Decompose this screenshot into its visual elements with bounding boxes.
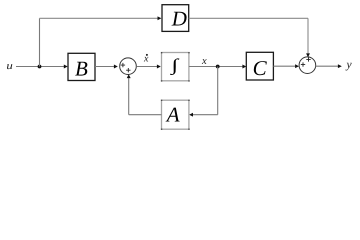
node x label <box>201 56 207 67</box>
summing junction S2 <box>299 57 316 74</box>
svg-text:x: x <box>201 56 207 67</box>
block D <box>162 5 189 32</box>
node y (output label) <box>346 59 353 71</box>
node u (input label) <box>6 61 12 72</box>
wire down into output sum <box>306 18 310 57</box>
wire A left to S1 corner <box>129 114 162 116</box>
block C <box>246 52 273 80</box>
junction dot at x branch <box>216 65 220 69</box>
plus sign left in S2 <box>301 62 305 66</box>
wire S2 to y <box>316 64 342 68</box>
wire C to sum2 <box>273 64 299 68</box>
wire right to A <box>189 113 218 117</box>
plus sign bottom in S1 <box>126 68 130 72</box>
svg-text:x: x <box>143 54 149 65</box>
wire top row to D <box>40 16 162 20</box>
svg-text:u: u <box>6 61 12 72</box>
wire branch down from x to A row <box>217 67 219 115</box>
svg-text:y: y <box>346 59 353 71</box>
plus sign left in S1 <box>121 63 125 67</box>
wire integrator to C <box>189 65 246 69</box>
summing junction S1 <box>120 58 137 75</box>
svg-text:B: B <box>75 56 88 80</box>
wire branch up from u to D row <box>39 18 41 66</box>
wire u to B <box>16 65 68 69</box>
block A <box>161 100 190 130</box>
wire D to output sum corner <box>189 17 308 19</box>
node xdot label <box>143 54 149 65</box>
wire up into S1 <box>127 74 131 115</box>
junction dot at u branch <box>38 65 42 69</box>
block B <box>68 53 95 80</box>
svg-text:D: D <box>171 7 187 31</box>
svg-text:A: A <box>165 103 180 127</box>
svg-text:C: C <box>253 56 268 80</box>
integrator block <box>161 52 190 82</box>
wire B to sum1 <box>95 65 118 69</box>
wire S1 to integrator <box>136 65 161 69</box>
plus sign top in S2 <box>306 57 310 61</box>
